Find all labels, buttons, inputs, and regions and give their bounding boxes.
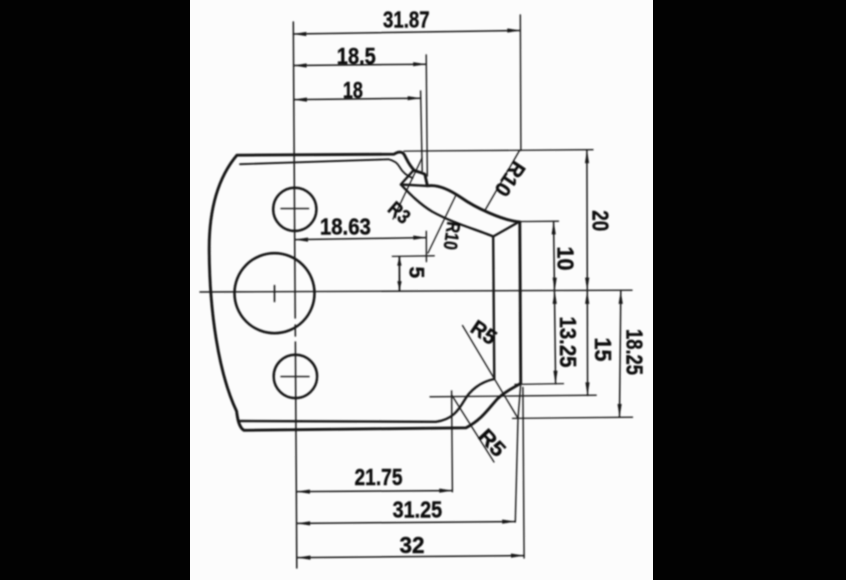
ext 5 top <box>392 255 434 258</box>
arrow 18 left <box>294 98 307 102</box>
svg-text:31.25: 31.25 <box>393 497 443 523</box>
ext 31.25 right <box>515 386 520 523</box>
arrow 18.63 left <box>295 238 308 242</box>
arrow 18.5 right <box>413 62 426 66</box>
ext 31.87 right <box>519 15 522 151</box>
arrow 10 bottom <box>553 278 557 291</box>
svg-text:10: 10 <box>553 247 579 271</box>
svg-text:15: 15 <box>590 338 616 362</box>
arrow 15 top <box>585 291 589 304</box>
arrow 10 top <box>552 221 556 234</box>
ext 13.25 bottom <box>515 383 564 386</box>
arrow 31.87 left <box>293 32 306 36</box>
dim line 18.25 vertical <box>620 291 621 417</box>
ext 21.75 right <box>451 391 454 492</box>
arrow 18.5 left <box>294 63 307 67</box>
wire horizontal centerline <box>200 290 632 292</box>
node large circle center tick <box>274 286 276 302</box>
svg-text:18: 18 <box>343 77 363 103</box>
arrow 5 top <box>397 257 401 266</box>
svg-text:31.87: 31.87 <box>383 7 430 33</box>
ext 18.5 right <box>426 55 427 176</box>
hole bottom circle <box>274 355 317 398</box>
wire left extension/centerline vertical <box>293 22 295 318</box>
dim line 31.87 <box>293 31 520 35</box>
dim line 5 vertical <box>398 257 400 291</box>
dim line 31.25 <box>297 522 515 524</box>
ext 18 right <box>421 91 423 171</box>
leader R5 upper <box>463 326 518 418</box>
svg-text:5: 5 <box>405 267 428 279</box>
svg-text:18.63: 18.63 <box>320 214 371 240</box>
svg-text:20: 20 <box>588 210 614 231</box>
leader R10 middle <box>428 196 456 253</box>
ext 18.25 bottom <box>513 417 633 418</box>
leader R5 lower <box>452 396 494 463</box>
svg-text:32: 32 <box>400 532 425 558</box>
svg-text:21.75: 21.75 <box>355 464 403 490</box>
dim line 20-15 vertical <box>586 150 589 395</box>
dim line 18 <box>294 98 421 99</box>
ext notch vertical at 18.63 arrow <box>425 231 427 261</box>
arrow 31.25 right <box>502 520 515 524</box>
hole large circle <box>235 253 315 333</box>
part top land line <box>240 159 413 178</box>
inner ogee curve <box>402 185 494 236</box>
arrow 18 right <box>408 96 421 100</box>
arrow 21.75 right <box>439 489 452 493</box>
arrow 31.87 right <box>507 28 520 32</box>
arrow 5 bottom <box>397 281 401 290</box>
arrow 13.25 bottom <box>553 371 557 384</box>
ext 32 right <box>523 388 524 559</box>
arrow 20 top <box>585 150 589 163</box>
arrow 15 bottom <box>585 382 589 395</box>
arrow 18.25 bottom <box>618 404 622 417</box>
node top hole center tick <box>281 208 309 210</box>
dim line 32 <box>297 556 524 558</box>
arrow 32 right <box>511 554 524 558</box>
node bottom hole center tick <box>281 376 309 378</box>
dim line 18.63 <box>295 238 426 240</box>
hole top circle <box>273 188 316 231</box>
svg-text:R10: R10 <box>439 220 464 251</box>
svg-text:13.25: 13.25 <box>555 317 581 368</box>
part bottom land + inner S + inner right edge + corner bevel <box>241 222 519 422</box>
svg-text:18.25: 18.25 <box>622 329 648 375</box>
svg-text:18.5: 18.5 <box>337 43 376 69</box>
ext top edge to right <box>404 150 593 151</box>
arrow 13.25 top <box>553 291 557 304</box>
ext 10 top <box>513 220 559 222</box>
dim line 10-13.25 vertical <box>554 221 556 384</box>
part outer outline <box>209 152 521 430</box>
arrow 31.25 left <box>297 521 310 525</box>
arrow 20 bottom <box>585 278 589 291</box>
leader R10 upper <box>485 151 520 211</box>
dim line 21.75 <box>297 491 452 492</box>
dim line 18.5 <box>294 64 427 65</box>
arrow 18.25 top <box>619 291 623 304</box>
arrow 32 left <box>297 556 310 560</box>
leader R3 <box>393 158 422 219</box>
arrow 18.63 right <box>413 236 426 240</box>
ext 20-15 bottom <box>430 395 596 397</box>
paper background <box>190 0 653 580</box>
notch bevel quad <box>401 170 428 186</box>
arrow 21.75 left <box>297 490 310 494</box>
